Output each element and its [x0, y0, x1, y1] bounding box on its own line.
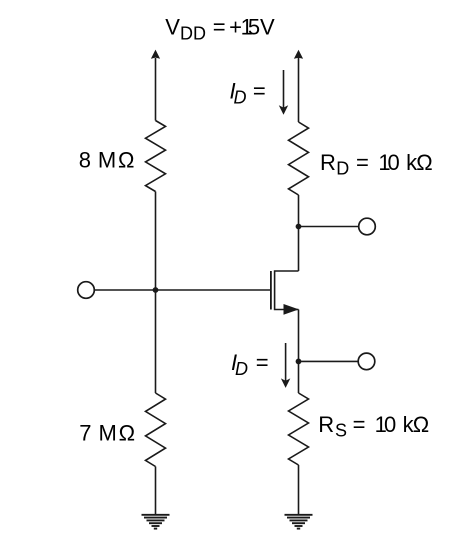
svg-text:7MΩ: 7MΩ [79, 420, 135, 445]
svg-text:8MΩ: 8MΩ [79, 147, 135, 172]
